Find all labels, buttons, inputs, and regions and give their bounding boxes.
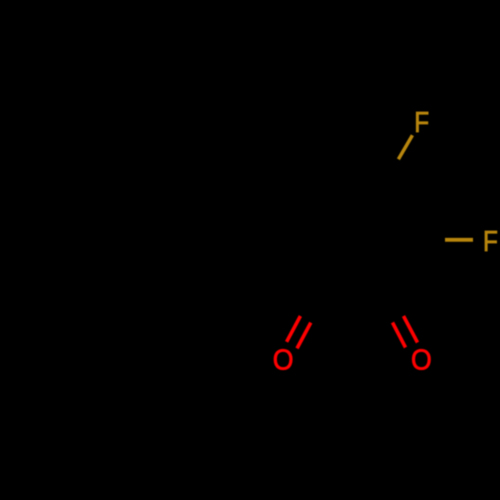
svg-text:O: O (273, 344, 294, 376)
svg-text:F: F (483, 225, 498, 257)
svg-text:F: F (414, 106, 429, 138)
svg-text:O: O (411, 343, 432, 375)
